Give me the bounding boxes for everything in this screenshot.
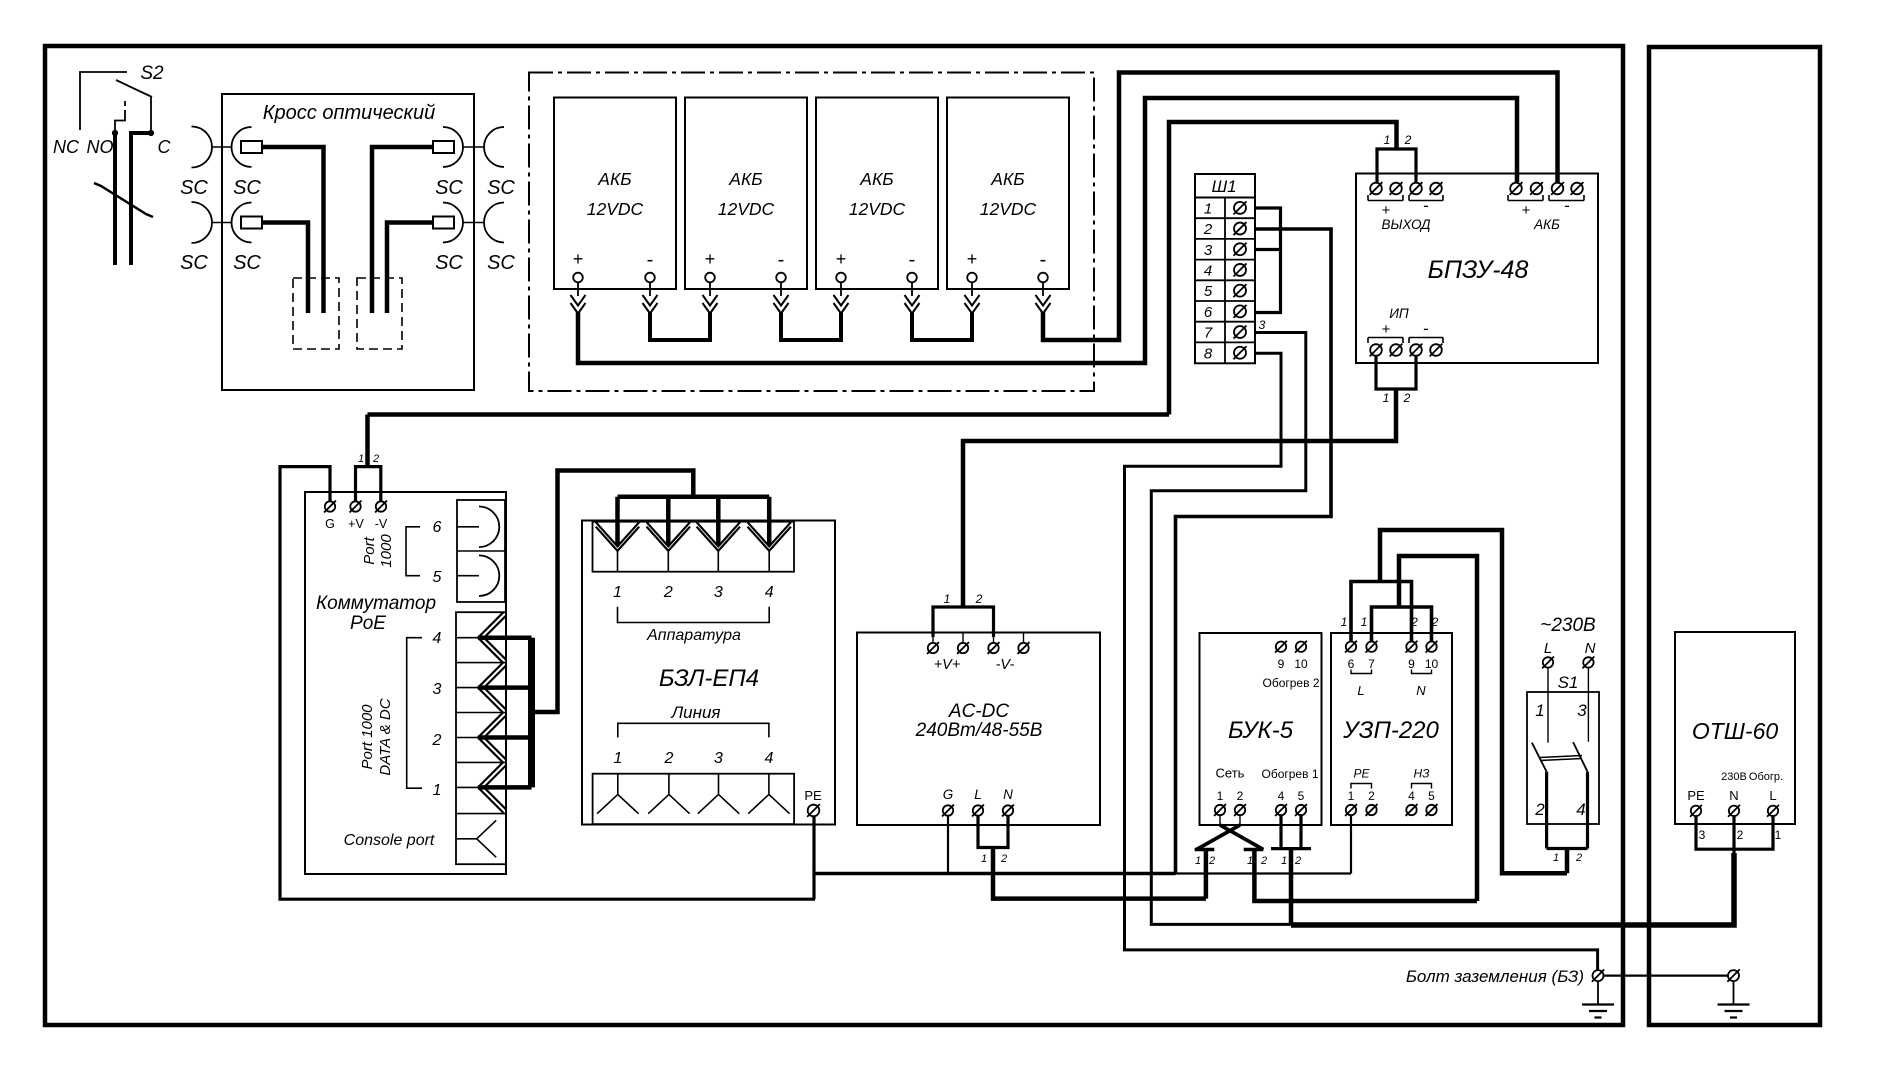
- cable УЗП 7 10 to БУК Сеть: [1372, 607, 1432, 642]
- svg-text:1: 1: [1361, 615, 1368, 629]
- svg-text:1: 1: [1384, 133, 1391, 147]
- svg-text:230В: 230В: [1721, 771, 1747, 783]
- svg-text:2: 2: [1208, 855, 1215, 867]
- wire battery1 minus to battery2 plus: [650, 312, 710, 340]
- wire БЗЛ PE down to PE bus: [812, 817, 815, 900]
- wire battery1 plus to BPZU AKB+: [578, 98, 1517, 363]
- svg-text:Обогрев 1: Обогрев 1: [1262, 767, 1319, 781]
- svg-text:L: L: [974, 787, 982, 802]
- svg-text:-: -: [778, 249, 785, 271]
- svg-text:3: 3: [1699, 828, 1706, 842]
- wire Ш1-1 to Ш1-6 jumper with Ш1-3 tap: [1255, 208, 1281, 313]
- svg-text:12VDC: 12VDC: [718, 199, 775, 219]
- svg-text:2: 2: [1260, 855, 1267, 867]
- terminal block Ш1: [1195, 174, 1255, 363]
- ground symbol right: [1733, 982, 1735, 1005]
- БУК Сеть crossover cable: [1219, 815, 1221, 825]
- svg-text:6: 6: [1348, 657, 1355, 671]
- svg-text:4: 4: [433, 630, 442, 647]
- SC connector east top: [433, 141, 454, 153]
- svg-text:2: 2: [663, 584, 673, 601]
- svg-text:2: 2: [1404, 133, 1412, 147]
- svg-text:SC: SC: [180, 252, 208, 274]
- svg-text:Port 1000: Port 1000: [359, 704, 376, 770]
- svg-text:PoE: PoE: [350, 613, 386, 634]
- battery GB3 АКБ 12VDC: [816, 98, 938, 290]
- svg-text:2: 2: [1203, 221, 1213, 238]
- svg-text:Port: Port: [361, 536, 378, 564]
- fiber cable west top: [262, 147, 324, 313]
- AC-DC converter box: [857, 633, 1100, 826]
- svg-text:-: -: [909, 249, 916, 271]
- main cabinet frame: [45, 46, 1623, 1025]
- splice dashed box right: [357, 278, 402, 349]
- wire Ш1-8 to ground bolt: [1125, 353, 1598, 970]
- svg-text:1: 1: [1775, 828, 1782, 842]
- PoE port 2 plug: [456, 737, 478, 739]
- svg-text:БУК-5: БУК-5: [1228, 717, 1294, 744]
- БЗЛ Аппаратура plug 2: [647, 527, 690, 551]
- БЗЛ Линия terminal 3: [698, 774, 739, 814]
- svg-text:1: 1: [1247, 855, 1253, 867]
- svg-text:8: 8: [1204, 345, 1213, 362]
- БЗЛ Линия terminal 4: [748, 774, 789, 814]
- svg-text:+: +: [1382, 321, 1391, 338]
- svg-text:Console port: Console port: [344, 832, 435, 849]
- БЗЛ Аппаратура bracket cable: [618, 494, 770, 499]
- splice dashed box left: [293, 278, 339, 349]
- УЗП L bracket: [1351, 670, 1372, 674]
- PoE G terminal: [325, 501, 335, 511]
- svg-text:L: L: [1769, 788, 1776, 803]
- svg-text:+: +: [967, 249, 978, 269]
- PoE -V terminal: [376, 501, 386, 511]
- БЗЛ Аппаратура plug 4: [748, 527, 791, 551]
- cable БПЗУ ВЫХОД 1-2: [1377, 149, 1416, 183]
- svg-text:3: 3: [1259, 318, 1266, 332]
- svg-text:3: 3: [714, 750, 723, 767]
- БЗЛ Линия connector row: [593, 774, 795, 824]
- wire battery4 minus to BPZU AKB-: [1043, 73, 1558, 341]
- БЗЛ Аппаратура connector row: [593, 522, 795, 572]
- svg-text:7: 7: [1368, 657, 1375, 671]
- S1 pole 1 wire: [1547, 668, 1549, 743]
- PoE switch box: [305, 492, 506, 874]
- cable БПЗУ ИП 1-2: [1376, 356, 1416, 389]
- svg-text:NC: NC: [53, 137, 80, 157]
- svg-text:АКБ: АКБ: [1533, 217, 1560, 232]
- wire bolt to bolt: [1604, 974, 1729, 976]
- БЗЛ Аппаратура plug 3: [697, 527, 740, 551]
- PoE power cable 1-2: [356, 467, 381, 501]
- svg-text:2: 2: [975, 592, 983, 606]
- svg-text:7: 7: [1204, 325, 1213, 342]
- PoE port 4 plug: [456, 637, 478, 639]
- svg-text:C: C: [158, 137, 172, 157]
- svg-text:1: 1: [433, 782, 442, 799]
- svg-text:4: 4: [764, 750, 773, 767]
- svg-text:1: 1: [613, 750, 622, 767]
- svg-text:Ш1: Ш1: [1211, 177, 1236, 196]
- svg-text:2: 2: [1737, 828, 1744, 842]
- PE bus wire: [814, 872, 1176, 875]
- svg-text:1: 1: [613, 584, 622, 601]
- БУК Обогрев 1 cable: [1281, 815, 1301, 849]
- ground bolt БЗ main cabinet: [1593, 970, 1604, 981]
- S1 blade right: [1573, 742, 1587, 772]
- fiber cable east top: [372, 147, 433, 313]
- svg-text:S1: S1: [1558, 673, 1579, 692]
- cable AC-DC input 1-2 from БПЗУ ИП: [933, 607, 994, 637]
- svg-text:2: 2: [663, 750, 673, 767]
- svg-text:УЗП-220: УЗП-220: [1342, 717, 1439, 744]
- cable slash symbol: [94, 183, 153, 217]
- ОТШ N terminal: [1729, 806, 1739, 816]
- БПЗУ ИП bracket +: [1368, 338, 1403, 344]
- svg-text:2: 2: [1534, 800, 1545, 819]
- wire heater 230V N to ОТШ-60: [1291, 853, 1734, 925]
- svg-text:+V+: +V+: [934, 657, 961, 673]
- svg-text:SC: SC: [435, 252, 463, 274]
- svg-text:PE: PE: [1687, 788, 1705, 803]
- ОТШ L terminal: [1768, 806, 1778, 816]
- svg-text:-: -: [1564, 196, 1570, 215]
- svg-text:1: 1: [1195, 855, 1201, 867]
- cable УЗП 6 9 to S1: [1351, 582, 1412, 642]
- svg-text:2: 2: [1000, 853, 1007, 865]
- svg-text:3: 3: [714, 584, 723, 601]
- svg-text:SC: SC: [233, 252, 261, 274]
- svg-text:12VDC: 12VDC: [980, 199, 1037, 219]
- svg-text:SC: SC: [487, 252, 515, 274]
- svg-text:1000: 1000: [378, 534, 395, 568]
- svg-text:SC: SC: [180, 177, 208, 199]
- svg-text:Обогр.: Обогр.: [1749, 771, 1783, 783]
- right cabinet frame: [1649, 47, 1820, 1025]
- battery GB2 АКБ 12VDC: [685, 98, 807, 290]
- svg-text:DATA & DC: DATA & DC: [377, 698, 394, 775]
- БПЗУ АКБ bracket -: [1549, 195, 1584, 201]
- ground bolt right cabinet: [1728, 970, 1739, 981]
- SC connector east bottom: [433, 217, 454, 229]
- S1 output wires: [1545, 772, 1548, 849]
- svg-text:1: 1: [1217, 789, 1224, 803]
- wire УЗП PE1 to PE bus: [1350, 815, 1352, 874]
- БЗЛ Линия overbrace: [618, 723, 769, 737]
- svg-text:+: +: [705, 249, 716, 269]
- PoE DATA ports bracket: [407, 638, 422, 789]
- svg-text:БПЗУ-48: БПЗУ-48: [1428, 256, 1529, 284]
- svg-text:1: 1: [1341, 615, 1348, 629]
- svg-text:+: +: [1522, 202, 1531, 219]
- svg-text:4: 4: [1204, 262, 1212, 279]
- svg-text:6: 6: [433, 519, 442, 536]
- svg-text:4: 4: [765, 584, 774, 601]
- power supply unit БПЗУ-48: [1356, 174, 1598, 364]
- svg-text:+: +: [573, 249, 584, 269]
- svg-text:6: 6: [1204, 304, 1213, 321]
- SC connector west bottom: [192, 202, 213, 243]
- svg-text:Линия: Линия: [671, 703, 721, 722]
- svg-text:2: 2: [1410, 615, 1418, 629]
- svg-text:-V: -V: [375, 517, 388, 531]
- УЗП N bracket: [1412, 670, 1432, 674]
- svg-text:3: 3: [433, 681, 442, 698]
- switch S2 contacts: [80, 72, 127, 130]
- svg-text:Обогрев 2: Обогрев 2: [1263, 676, 1320, 690]
- surge protector БЗЛ-ЕП4 box: [582, 521, 835, 825]
- БПЗУ ВЫХОД bracket +: [1368, 195, 1403, 201]
- battery GB4 АКБ 12VDC: [947, 98, 1069, 290]
- БЗЛ Линия terminal 2: [648, 774, 689, 814]
- svg-text:1: 1: [1204, 200, 1212, 217]
- svg-text:2: 2: [1368, 789, 1375, 803]
- svg-text:1: 1: [1383, 391, 1390, 405]
- svg-text:10: 10: [1294, 657, 1308, 671]
- PoE port 6 socket: [457, 526, 479, 528]
- svg-text:9: 9: [1408, 657, 1415, 671]
- svg-text:1: 1: [1535, 701, 1544, 720]
- БЗЛ Аппаратура plug 1: [596, 527, 639, 551]
- cable AC-DC L N to БУК Сеть: [978, 816, 1008, 848]
- control unit БУК-5 box: [1200, 633, 1322, 825]
- wire PoE data ports to БЗЛ: [478, 635, 532, 640]
- wire battery2 minus to battery3 plus: [781, 312, 841, 340]
- svg-text:НЗ: НЗ: [1413, 767, 1430, 781]
- PoE +V terminal: [350, 501, 360, 511]
- svg-text:-: -: [1423, 196, 1429, 215]
- PoE ports 6 5 bracket: [406, 527, 420, 576]
- battery group dash-dot box: [529, 73, 1094, 392]
- svg-text:12VDC: 12VDC: [849, 199, 906, 219]
- svg-text:N: N: [1585, 640, 1596, 657]
- svg-text:10: 10: [1425, 657, 1439, 671]
- svg-text:G: G: [943, 787, 954, 802]
- svg-text:5: 5: [433, 569, 442, 586]
- wire from C down: [131, 133, 151, 265]
- svg-text:РЕ: РЕ: [1353, 767, 1370, 781]
- svg-text:L: L: [1544, 640, 1552, 657]
- battery GB1 АКБ 12VDC: [554, 98, 676, 290]
- cable S1 to УЗП: [1565, 849, 1570, 874]
- S1 pole 2 wire: [1587, 668, 1589, 742]
- ОТШ PE terminal: [1691, 806, 1701, 816]
- БПЗУ ВЫХОД bracket -: [1409, 195, 1443, 201]
- PoE port 3 plug: [456, 687, 478, 689]
- svg-text:-: -: [1423, 319, 1429, 338]
- svg-text:Коммутатор: Коммутатор: [316, 593, 436, 614]
- svg-text:2: 2: [1431, 615, 1439, 629]
- svg-text:L: L: [1357, 683, 1364, 698]
- SC connector west top: [192, 127, 213, 168]
- fiber cable west bottom: [262, 223, 308, 314]
- svg-text:N: N: [1729, 788, 1738, 803]
- wire AC-DC G to PE bus: [947, 816, 949, 874]
- svg-text:ВЫХОД: ВЫХОД: [1381, 217, 1431, 232]
- svg-text:4: 4: [1408, 789, 1415, 803]
- svg-text:240Вт/48-55В: 240Вт/48-55В: [915, 720, 1043, 741]
- svg-text:4: 4: [1576, 800, 1585, 819]
- AC-DC G L N terminals: [943, 805, 953, 815]
- БУК Обогрев 2 terminals 9 10: [1276, 642, 1286, 652]
- БПЗУ ИП terminals: [1370, 344, 1382, 356]
- surge arrester УЗП-220 box: [1331, 633, 1452, 825]
- svg-text:1: 1: [944, 592, 951, 606]
- PoE port 5 socket: [457, 575, 479, 577]
- svg-text:~230В: ~230В: [1540, 615, 1596, 636]
- БПЗУ ИП bracket -: [1409, 338, 1443, 344]
- svg-text:5: 5: [1204, 283, 1213, 300]
- svg-text:Сеть: Сеть: [1216, 766, 1245, 781]
- svg-text:4: 4: [1278, 789, 1285, 803]
- svg-text:2: 2: [1575, 852, 1582, 864]
- PoE port1000 connector box: [457, 500, 505, 602]
- svg-text:2: 2: [432, 732, 442, 749]
- svg-text:2: 2: [1403, 391, 1411, 405]
- svg-text:N: N: [1003, 787, 1013, 802]
- svg-text:5: 5: [1298, 789, 1305, 803]
- svg-text:3: 3: [1204, 242, 1213, 259]
- svg-text:1: 1: [358, 453, 364, 465]
- fiber cable east bottom: [387, 223, 433, 314]
- svg-text:-V-: -V-: [996, 657, 1015, 673]
- БПЗУ АКБ terminals: [1510, 183, 1522, 195]
- БЗЛ Линия terminal 1: [597, 774, 638, 814]
- ОТШ terminal bus: [1696, 816, 1773, 849]
- svg-text:1: 1: [1348, 789, 1355, 803]
- svg-text:3: 3: [1577, 701, 1587, 720]
- S1 link bar: [1540, 756, 1582, 758]
- svg-text:S2: S2: [140, 63, 164, 84]
- svg-text:5: 5: [1428, 789, 1435, 803]
- УЗП terminals 6 7 9 10: [1346, 642, 1356, 652]
- breaker S1 box: [1527, 692, 1599, 824]
- thermo cabinet ОТШ-60 box: [1675, 632, 1795, 824]
- svg-text:1: 1: [981, 853, 987, 865]
- S1 L N terminals: [1543, 657, 1553, 667]
- svg-text:-: -: [1040, 249, 1047, 271]
- БПЗУ АКБ bracket +: [1508, 195, 1543, 201]
- svg-text:G: G: [325, 517, 335, 531]
- wire battery3 minus to battery4 plus: [912, 312, 972, 340]
- svg-text:PE: PE: [804, 788, 822, 803]
- svg-text:+V: +V: [348, 517, 364, 531]
- wire Ш1-7 to heater line: [1151, 333, 1306, 925]
- svg-text:АКБ: АКБ: [990, 169, 1024, 189]
- svg-text:АКБ: АКБ: [597, 169, 631, 189]
- svg-text:ОТШ-60: ОТШ-60: [1692, 718, 1779, 744]
- PoE DATA connector box: [456, 612, 506, 864]
- svg-text:1: 1: [1553, 852, 1559, 864]
- svg-text:Кросс оптический: Кросс оптический: [263, 102, 435, 124]
- svg-text:2: 2: [372, 453, 379, 465]
- svg-text:N: N: [1416, 683, 1426, 698]
- svg-text:АКБ: АКБ: [728, 169, 762, 189]
- svg-text:9: 9: [1278, 657, 1285, 671]
- svg-text:2: 2: [1294, 855, 1301, 867]
- svg-text:SC: SC: [487, 177, 515, 199]
- svg-text:2: 2: [1237, 789, 1244, 803]
- svg-text:+: +: [836, 249, 847, 269]
- svg-text:АКБ: АКБ: [859, 169, 893, 189]
- wire Ш1-2 to PE bus: [1176, 229, 1332, 874]
- PoE port 1 plug: [456, 786, 478, 788]
- svg-text:NO: NO: [87, 137, 114, 157]
- svg-text:1: 1: [1281, 855, 1287, 867]
- optical cross box: [222, 94, 474, 390]
- AC-DC +V+ -V- terminals: [932, 633, 934, 643]
- wire PoE power to БПЗУ ВЫХОД: [368, 412, 1170, 417]
- svg-text:ИП: ИП: [1389, 306, 1409, 321]
- БЗЛ Аппаратура underbrace: [618, 607, 770, 623]
- ground symbol main: [1597, 982, 1599, 1005]
- svg-text:12VDC: 12VDC: [587, 199, 644, 219]
- БПЗУ ВЫХОД terminals: [1370, 183, 1382, 195]
- svg-text:AC-DC: AC-DC: [948, 701, 1009, 722]
- wire PoE G to PE bus: [280, 467, 815, 900]
- svg-text:-: -: [647, 249, 654, 271]
- svg-text:SC: SC: [435, 177, 463, 199]
- S1 blade left: [1532, 743, 1547, 772]
- wire from NO down: [113, 133, 117, 265]
- svg-text:SC: SC: [233, 177, 261, 199]
- svg-text:Аппаратура: Аппаратура: [646, 627, 741, 644]
- svg-text:Болт заземления (БЗ): Болт заземления (БЗ): [1406, 967, 1584, 986]
- svg-text:БЗЛ-ЕП4: БЗЛ-ЕП4: [659, 665, 759, 692]
